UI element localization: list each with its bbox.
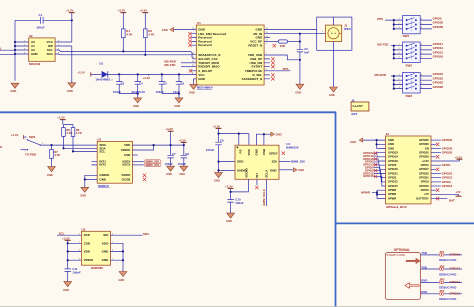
no-connect usb_dp — [271, 57, 274, 60]
wire int stub bmm — [256, 179, 258, 185]
svg-text:VDD: VDD — [247, 148, 251, 155]
wire shield top stub — [333, 17, 335, 25]
wire vddio bottom bmm — [231, 179, 249, 192]
pin numbers eeprom — [24, 40, 60, 54]
svg-text:MS-TXD: MS-TXD — [377, 43, 388, 47]
svg-text:GPIO25: GPIO25 — [442, 151, 453, 155]
node R2/SDA — [144, 54, 146, 56]
no-connect reserved2 — [188, 40, 191, 43]
svg-text:GPIO16: GPIO16 — [442, 184, 453, 188]
wire R2 bottom — [144, 38, 146, 55]
power +3.3V bmi a — [165, 127, 173, 145]
no-connect m5 l4 — [374, 169, 377, 172]
power +3.3V eeprom — [66, 9, 75, 21]
wire stamp row3 — [421, 281, 463, 283]
no-connect m5 r4 — [436, 189, 439, 192]
part name NEO-M8N — [197, 86, 213, 90]
wire R5 bottom to SDA row — [64, 136, 98, 148]
wire stamp row2 — [421, 268, 463, 270]
svg-text:GND: GND — [295, 90, 301, 94]
svg-text:GPIO15: GPIO15 — [388, 184, 398, 188]
wire VDDIO tie — [132, 145, 153, 150]
capacitor C8 — [178, 145, 189, 166]
svg-text:PPS: PPS — [283, 67, 289, 71]
svg-text:GND: GND — [226, 219, 232, 223]
svg-text:C9: C9 — [220, 139, 224, 143]
resistor R2 — [144, 29, 156, 38]
svg-text:M5Stack_BUS: M5Stack_BUS — [386, 205, 406, 209]
wire C1 top — [15, 19, 72, 21]
wire eeprom left pin stubs — [15, 42, 29, 54]
svg-text:GPIO2: GPIO2 — [388, 176, 397, 180]
node ps stub — [238, 133, 240, 135]
node vdd_usb join — [299, 59, 301, 61]
svg-text:GPIO35: GPIO35 — [433, 21, 444, 25]
svg-text:GPIO0: GPIO0 — [433, 16, 442, 20]
svg-text:IPEX: IPEX — [344, 27, 351, 31]
svg-text:+3.3V: +3.3V — [143, 76, 151, 80]
node m5 gnd2 — [376, 143, 378, 145]
svg-text:+3.3V: +3.3V — [165, 127, 173, 131]
svg-text:GND: GND — [47, 173, 53, 177]
wire cap gnd rail 1 — [119, 93, 138, 95]
connector J1 body — [322, 25, 342, 41]
svg-text:GND: GND — [10, 89, 16, 93]
wire c2 bottom to gnd — [299, 52, 301, 84]
node vddio bmm — [230, 191, 232, 193]
wire CSB stub — [132, 154, 137, 156]
wire gps right gnd to shield — [264, 29, 317, 31]
wire GNDIO GND left — [85, 175, 97, 187]
connector stamp conn box — [385, 253, 420, 300]
node sw2 d — [393, 57, 395, 59]
connector J2 ant pad — [351, 99, 369, 117]
node gnd rail1 — [137, 93, 139, 95]
svg-text:GND: GND — [63, 288, 69, 292]
ground c2 — [295, 84, 304, 94]
svg-text:EN: EN — [425, 146, 429, 150]
svg-text:+3.3V: +3.3V — [118, 9, 126, 13]
power +3.3V R2 — [140, 9, 149, 29]
svg-text:BMM_SDI: BMM_SDI — [291, 160, 305, 164]
node bmp vdd — [67, 250, 69, 252]
resistor R5 — [62, 128, 74, 137]
svg-text:+5V: +5V — [455, 190, 460, 194]
imu U3 BMI270 — [97, 137, 132, 183]
node cap C4 tap — [137, 73, 139, 75]
node hpwr1 — [376, 191, 378, 193]
svg-text:TXD: TXD — [421, 265, 427, 269]
svg-text:SW2: SW2 — [406, 63, 413, 67]
switch SW3 — [399, 72, 424, 98]
svg-text:SDO: SDO — [237, 160, 244, 164]
ground R7 — [47, 167, 55, 177]
svg-text:HPWR: HPWR — [361, 191, 371, 195]
svg-text:Reserved: Reserved — [198, 43, 212, 47]
power +3.3V R1 — [118, 9, 127, 29]
wire antenna shield box — [317, 17, 352, 50]
svg-text:GND: GND — [270, 168, 278, 172]
ground C7 — [166, 166, 175, 176]
svg-text:GPIO36: GPIO36 — [419, 142, 429, 146]
eeprom U2 M24C32 — [29, 34, 55, 66]
svg-text:SDI: SDI — [103, 233, 108, 237]
wire gnd2 stub — [264, 37, 270, 39]
wire sdo stub bmm — [219, 161, 236, 163]
node R1/SCL — [122, 50, 124, 52]
section divider vertical — [335, 112, 337, 307]
wire bmm top rail — [219, 134, 249, 146]
svg-text:GPIO26: GPIO26 — [419, 155, 429, 159]
wire sdi to sda — [110, 234, 142, 236]
wire sdi bmm — [279, 161, 291, 163]
wire m5 gnd tie — [377, 140, 386, 148]
ground BMI270 — [80, 187, 89, 197]
svg-text:GND: GND — [99, 177, 107, 181]
node A1 — [14, 45, 16, 47]
node sw1 a — [393, 19, 395, 21]
node A0 — [14, 41, 16, 43]
svg-text:TS-PKD: TS-PKD — [25, 152, 37, 156]
wire ASDX stub — [132, 161, 143, 163]
jumper JP3 — [439, 278, 445, 284]
node gndio bmm — [217, 169, 219, 171]
svg-text:GND: GND — [162, 28, 168, 32]
wire WP to ground vertical — [71, 46, 73, 83]
power +3.3V bmp — [62, 236, 71, 268]
svg-text:SDA: SDA — [47, 52, 54, 56]
wire eeprom right stubs — [55, 42, 72, 46]
ground gps left — [189, 84, 198, 94]
port BMM_SDI — [144, 160, 161, 164]
node cap C5 tap — [161, 73, 163, 75]
diode D1 1N4148WS — [95, 62, 113, 82]
svg-text:+3.3V: +3.3V — [57, 116, 65, 120]
svg-text:GPIO16: GPIO16 — [388, 167, 398, 171]
node RF junction — [299, 33, 301, 35]
svg-text:VDDIO: VDDIO — [121, 148, 131, 152]
power +3.3V sw4 — [11, 133, 27, 139]
svg-text:GND: GND — [102, 249, 110, 253]
wire m5 right stubs — [431, 140, 460, 199]
svg-text:C7: C7 — [172, 152, 176, 156]
capacitor C10 — [227, 192, 243, 213]
power +3.3V R5R6 — [57, 116, 73, 128]
ground bmp right — [118, 272, 127, 283]
svg-text:C4: C4 — [139, 81, 143, 85]
wire gndio stub bmm — [219, 169, 236, 171]
svg-text:BMM_SCLK: BMM_SCLK — [262, 188, 266, 205]
svg-text:RESET_N: RESET_N — [248, 44, 262, 48]
svg-text:GND: GND — [102, 258, 110, 262]
svg-text:U2: U2 — [29, 34, 33, 38]
svg-text:GPIO22: GPIO22 — [419, 171, 429, 175]
resistor R1 — [122, 29, 134, 38]
svg-text:10R: 10R — [280, 44, 286, 48]
svg-text:+3.3V: +3.3V — [213, 124, 221, 128]
svg-text:+3.3V: +3.3V — [11, 133, 19, 137]
svg-text:BMI270: BMI270 — [98, 184, 109, 188]
svg-text:ASCX: ASCX — [122, 163, 130, 167]
svg-text:GPIO13: GPIO13 — [449, 267, 460, 271]
svg-text:VDDIO: VDDIO — [84, 258, 94, 262]
switch SW1 — [399, 16, 424, 39]
capacitor C5 — [156, 74, 168, 94]
svg-text:+3.3V: +3.3V — [140, 9, 148, 13]
wire sw3 common — [391, 76, 403, 89]
jumper JP4 — [439, 289, 445, 295]
node bmp gnd2 — [122, 259, 124, 261]
svg-text:GPIO19: GPIO19 — [388, 155, 398, 159]
svg-text:C5: C5 — [163, 81, 167, 85]
svg-text:GND: GND — [214, 179, 220, 183]
svg-text:100nF: 100nF — [72, 270, 81, 274]
no-connect reserved3 — [188, 44, 191, 47]
ground port at gps pin1 — [162, 27, 197, 32]
svg-text:GPIO35: GPIO35 — [419, 138, 429, 142]
wire TXD stub — [181, 62, 196, 64]
node R7 top — [50, 144, 52, 146]
svg-text:GPIO26: GPIO26 — [433, 85, 444, 89]
no-connect int bmm — [255, 186, 258, 189]
svg-text:GND: GND — [388, 138, 394, 142]
pin numbers gps left — [192, 28, 195, 75]
no-connect X_BCLKP — [189, 69, 192, 72]
wire shield bottom stub — [333, 42, 335, 51]
svg-text:MS-RXD: MS-RXD — [375, 73, 386, 77]
wire sw1 outputs — [420, 20, 432, 29]
svg-text:GND: GND — [31, 52, 39, 56]
capacitor C4 — [132, 74, 146, 94]
svg-text:SDI: SDI — [272, 160, 277, 164]
svg-text:GND: GND — [174, 104, 180, 108]
svg-text:+3.3V: +3.3V — [77, 71, 85, 75]
node sw3 c — [393, 83, 395, 85]
power +3.3V bmm top — [213, 124, 222, 141]
wire timepulse — [264, 70, 290, 72]
wire bmp left stubs — [68, 243, 82, 260]
power +3.3V m5 — [454, 155, 462, 161]
svg-text:GND: GND — [189, 91, 195, 95]
svg-text:100nF: 100nF — [178, 162, 187, 166]
wire sw2 common — [391, 46, 403, 59]
part name BMI270 — [98, 184, 109, 188]
svg-text:4.7K: 4.7K — [126, 32, 133, 36]
svg-text:GND: GND — [254, 148, 258, 156]
svg-text:SCLK: SCLK — [265, 169, 269, 178]
no-connect safeboot — [271, 77, 274, 80]
node A2 — [14, 49, 16, 51]
pin numbers gps right — [266, 28, 269, 71]
node GND pin — [14, 53, 16, 55]
power +5V m5 — [455, 190, 461, 196]
pressure sensor U5 BMP280 — [79, 227, 114, 265]
svg-text:GND: GND — [388, 146, 394, 150]
svg-text:HPWR: HPWR — [388, 188, 396, 192]
svg-text:100nF: 100nF — [206, 148, 215, 152]
node c8 top — [183, 144, 185, 146]
svg-text:BAT: BAT — [449, 199, 455, 203]
no-connect OCSB — [143, 178, 146, 181]
resistor R7 — [50, 145, 62, 167]
ground caps C3 C4 — [133, 94, 142, 108]
svg-text:PS: PS — [239, 149, 243, 153]
wire gps left pin stubs — [191, 34, 196, 71]
svg-text:+3.3V: +3.3V — [422, 159, 429, 163]
wire INT1 INT2 stubs — [92, 162, 98, 165]
wire r3 to junction — [288, 41, 300, 43]
svg-text:GPIO36: GPIO36 — [433, 25, 444, 29]
svg-text:GND: GND — [166, 172, 172, 176]
svg-text:CSB: CSB — [124, 153, 131, 157]
svg-text:GPIO15: GPIO15 — [363, 174, 374, 178]
svg-text:SAFEBOOT_N: SAFEBOOT_N — [242, 77, 263, 81]
power +3.3V bmi b — [178, 138, 187, 145]
svg-text:NEO-M8N-0: NEO-M8N-0 — [197, 86, 213, 90]
svg-text:SDA: SDA — [143, 232, 150, 236]
svg-text:GND: GND — [198, 77, 206, 81]
op-amp U1 gps module body — [196, 21, 264, 85]
no-connect m5 r5 — [436, 197, 439, 200]
node m5 gnd1 — [376, 139, 378, 141]
svg-text:GND: GND — [133, 104, 139, 108]
wire vdd_usb step — [264, 55, 300, 60]
svg-text:INT2: INT2 — [99, 163, 106, 167]
svg-text:GPIO25: GPIO25 — [419, 151, 429, 155]
svg-text:GPIO16: GPIO16 — [433, 55, 444, 59]
svg-text:C3: C3 — [121, 81, 125, 85]
wire sw2 outputs — [420, 46, 432, 59]
node sdo bmm — [217, 161, 219, 163]
node sw3 d — [393, 88, 395, 90]
port BMM_SCL — [144, 163, 161, 167]
arrow rx — [405, 283, 419, 288]
node C1/VCC junction — [71, 19, 73, 21]
svg-text:GPIO1: GPIO1 — [442, 163, 451, 167]
svg-text:HPWR: HPWR — [388, 196, 396, 200]
svg-text:ANT: ANT — [351, 112, 357, 116]
wire VCC vertical — [71, 20, 73, 42]
svg-text:J3: J3 — [386, 132, 390, 136]
node bmp vddio — [67, 259, 69, 261]
ground antenna — [329, 87, 338, 97]
wire RXD stub — [181, 66, 196, 68]
svg-text:GND: GND — [388, 142, 394, 146]
switch SW4 — [21, 135, 45, 157]
svg-text:U5: U5 — [82, 227, 86, 231]
no-connect extint — [271, 65, 274, 68]
svg-text:INT: INT — [255, 173, 259, 178]
wire RF_IN to antenna — [264, 33, 325, 35]
svg-text:100nF: 100nF — [235, 201, 244, 205]
wire stamp row1 — [421, 254, 463, 256]
wire SDA line to GPS — [55, 53, 196, 56]
svg-text:D1: D1 — [100, 62, 104, 66]
svg-text:GPIO12: GPIO12 — [388, 180, 398, 184]
svg-text:RXD: RXD — [421, 290, 427, 294]
wire rf bias vertical — [299, 34, 301, 49]
node bmm rail — [217, 133, 219, 135]
svg-text:+5V: +5V — [424, 192, 429, 196]
no-connect m5 l5 — [374, 175, 377, 178]
ground port bmm top — [271, 132, 282, 136]
svg-text:GPIO3: GPIO3 — [421, 180, 430, 184]
wire vcc rail — [108, 73, 197, 75]
power +3.3V at diode — [77, 71, 101, 77]
no-connect usb_dm — [271, 61, 274, 64]
svg-text:1N4148WS: 1N4148WS — [95, 78, 110, 82]
node sw3 a — [393, 75, 395, 77]
connector J3 m5stack bus — [386, 132, 432, 204]
wire SDO row — [41, 144, 97, 146]
node bmp csb — [67, 242, 69, 244]
wire stubs from sheet edge — [0, 50, 15, 54]
ground caps C5 C6 — [174, 94, 183, 108]
capacitor C11 — [65, 267, 81, 281]
svg-text:GaANT: GaANT — [352, 104, 363, 108]
svg-text:4.7K: 4.7K — [148, 32, 155, 36]
resistor R3 — [278, 40, 287, 48]
svg-text:U1: U1 — [197, 21, 201, 25]
power +3.3V mid-rail tap — [143, 74, 151, 80]
svg-text:GPIO1: GPIO1 — [421, 163, 430, 167]
wire SCL line to GPS — [55, 50, 196, 59]
capacitor C7 — [165, 145, 176, 166]
ground left rail — [10, 83, 19, 93]
svg-text:+3.3V: +3.3V — [62, 236, 70, 240]
svg-text:SDO: SDO — [102, 241, 109, 245]
node c7 top — [170, 144, 172, 146]
capacitor C1 — [36, 13, 45, 30]
wire sclk bmm — [266, 179, 268, 206]
wire VDD row right — [132, 144, 183, 146]
node r3 out — [299, 40, 301, 42]
node cap C6 tap — [178, 73, 180, 75]
svg-text:M24C32: M24C32 — [29, 62, 41, 66]
capacitor C6 — [173, 74, 184, 94]
wire sck row — [57, 234, 82, 236]
svg-text:4.7K: 4.7K — [54, 153, 61, 157]
svg-text:GPIO21: GPIO21 — [419, 176, 429, 180]
svg-text:GND: GND — [298, 168, 304, 172]
svg-text:100nF: 100nF — [36, 25, 45, 29]
svg-text:BATTERY: BATTERY — [416, 196, 429, 200]
node sw1 b — [393, 23, 395, 25]
jumper JP1 — [439, 250, 445, 256]
svg-text:SCK: SCK — [84, 233, 91, 237]
magnetometer U4 BMM150 — [235, 145, 279, 179]
svg-text:GPIO18: GPIO18 — [388, 159, 398, 163]
node sw3 b — [393, 79, 395, 81]
svg-text:SW3: SW3 — [406, 94, 413, 98]
svg-text:DRDY: DRDY — [269, 151, 278, 155]
node bmp gnd1 — [122, 250, 124, 252]
wire GND left rail — [14, 20, 16, 81]
resistor R6 — [71, 128, 83, 137]
wire gnd right bmm — [279, 169, 293, 171]
svg-text:PPS: PPS — [377, 17, 383, 21]
svg-text:GPIO23: GPIO23 — [388, 151, 398, 155]
svg-text:MS-TXD: MS-TXD — [164, 63, 175, 67]
svg-text:BMM_SCL: BMM_SCL — [146, 163, 161, 167]
svg-text:GND: GND — [179, 172, 185, 176]
bottom edge line — [0, 305, 474, 307]
svg-text:BMP280: BMP280 — [91, 266, 103, 270]
svg-text:BMM150: BMM150 — [286, 145, 299, 149]
node csb top — [263, 133, 265, 135]
svg-text:GND: GND — [80, 193, 86, 197]
svg-text:C1: C1 — [39, 13, 43, 17]
